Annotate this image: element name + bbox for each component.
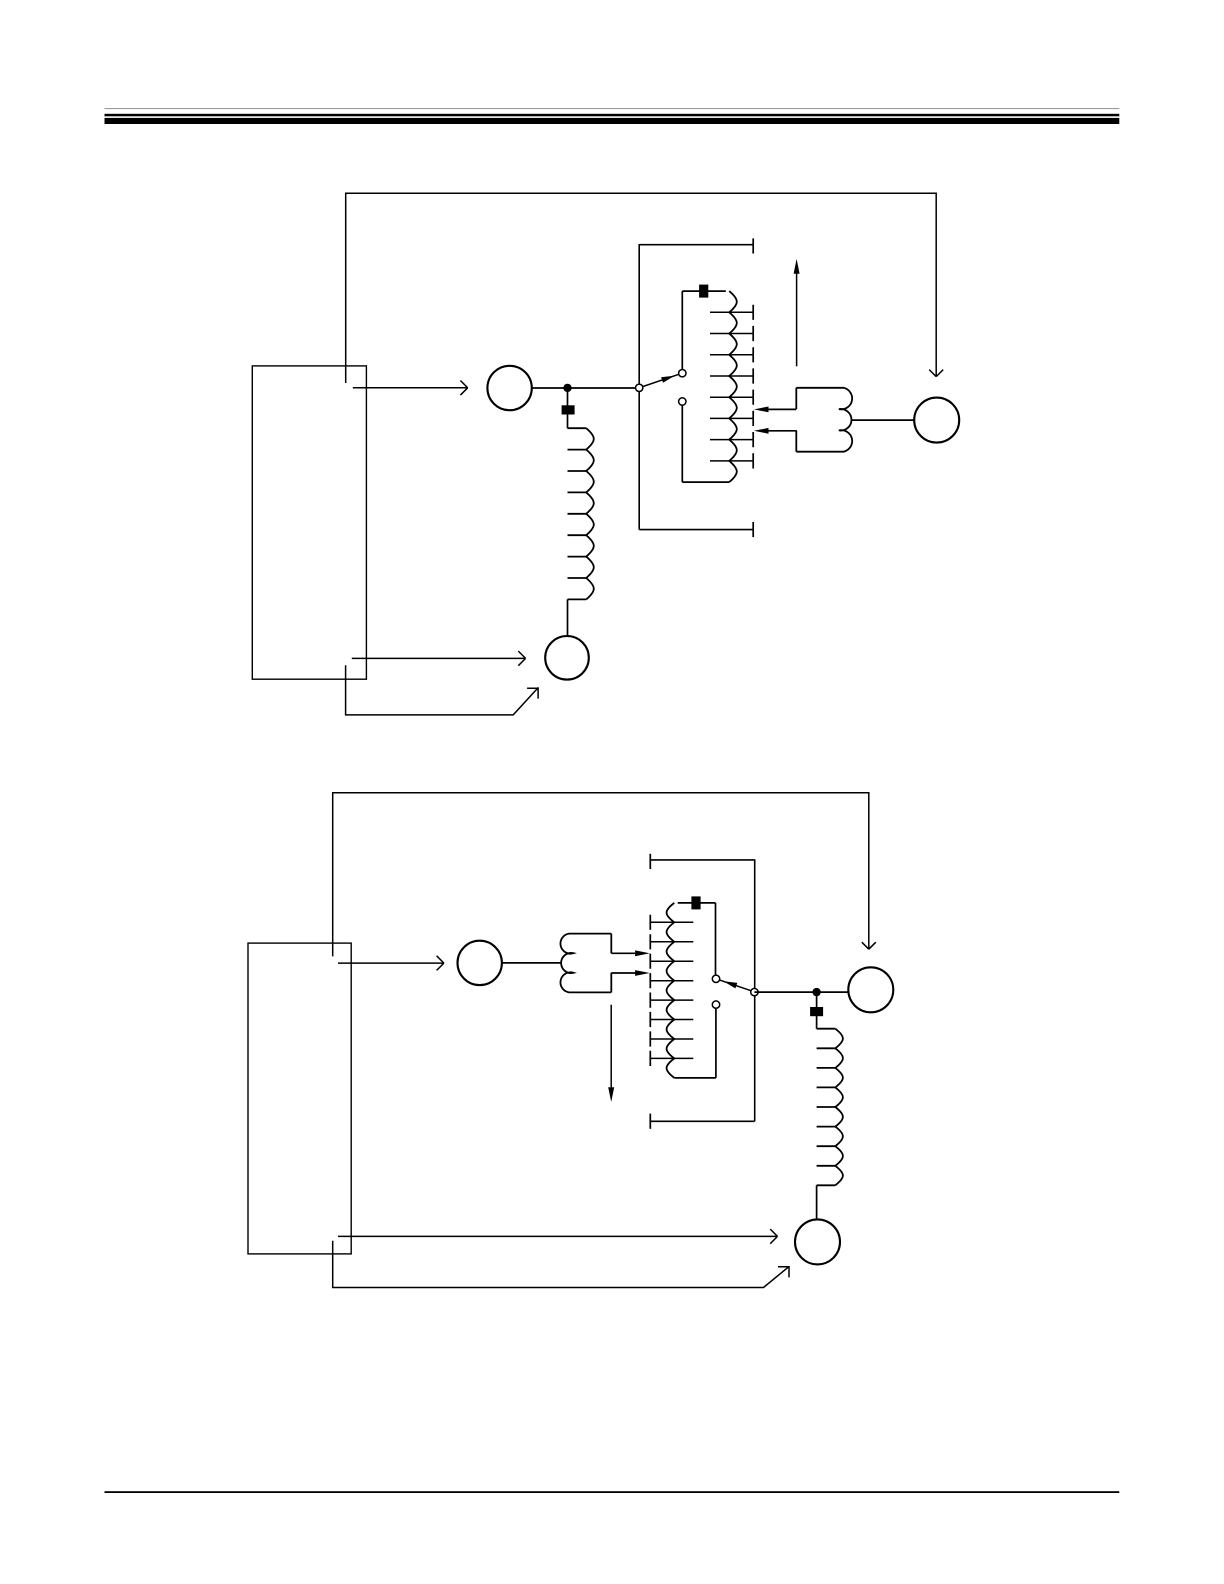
wire tapped winding top lead (diagram 1) [682,290,726,292]
wire changeover lower branch (diagram 2) [715,1008,717,1078]
wire preventive auto tap to terminal S (diagram 1) [852,419,915,421]
wire top rail (diagram 2) [333,792,869,794]
terminal circle H1 (diagram 2) [458,941,502,985]
series winding L1 turn returns (diagram 2) [817,1029,836,1186]
junction dot B (diagram 2) [812,988,820,996]
selector arm arrowhead (diagram 1) [661,376,675,383]
arrow into terminal X1 (diagram 2) [338,1235,777,1237]
terminal circle H1 (diagram 1) [487,366,531,410]
wire tapped winding bottom lead (diagram 2) [674,1077,716,1079]
track end tick top (diagram 2) [649,854,651,869]
tapped winding L2 (diagram 1) [729,291,737,482]
selector fixed contact lower (diagram 2) [712,1001,719,1008]
bridging wire upper with arrowhead (diagram 2) [611,952,636,954]
series winding L1 turn returns (diagram 1) [568,428,587,599]
selector arm (diagram 2) [719,980,752,991]
wire changeover upper branch (diagram 1) [681,291,683,370]
arrow into terminal H1 (diagram 2) [338,962,444,964]
terminal circle X1 (diagram 1) [545,636,589,680]
wire junction A down to series winding (diagram 1) [567,388,569,428]
selector fixed contact upper (diagram 2) [712,975,719,982]
wire right rail drop (diagram 2) [868,792,870,949]
marker square on tapped winding lead (diagram 1) [699,285,708,298]
series winding L1 (diagram 2) [835,1029,843,1186]
wire right rail drop (diagram 1) [935,193,937,377]
LTC adjustment arrow (diagram 2) [333,1241,789,1288]
wire changeover lower branch (diagram 1) [681,405,683,482]
wire pivot to terminal S (diagram 2) [754,991,848,993]
marker square on tapped winding lead (diagram 2) [691,896,700,909]
track end tick top (diagram 1) [752,238,754,253]
wire series winding to terminal X1 (diagram 1) [567,599,569,636]
junction dot A (diagram 1) [563,384,571,392]
arrow into terminal H1 (diagram 1) [353,387,468,389]
series winding L1 (diagram 1) [586,428,594,599]
wire top rail (diagram 1) [346,192,937,194]
wire tapped winding top lead (diagram 2) [678,902,716,904]
tapped winding L2 (diagram 2) [667,903,675,1078]
LTC adjustment arrow (diagram 1) [346,665,538,715]
selector fixed contact lower (diagram 1) [679,398,686,405]
wire junction B down to series winding (diagram 2) [816,992,818,1029]
wire left rail drop to box (diagram 2) [332,792,334,956]
page top rule (triple) [105,108,1120,124]
marker square on series winding lead (diagram 1) [562,405,575,414]
arrow into terminal X1 (diagram 1) [352,657,526,659]
terminal circle S (diagram 1) [914,398,959,443]
page bottom rule [105,1491,1120,1493]
selector arm arrowhead (diagram 2) [724,981,738,988]
selector contact track ticks (diagram 1) [752,305,754,469]
preventive autotransformer (diagram 2) [560,934,611,993]
selector range bracket (diagram 2) [650,859,754,1121]
preventive autotransformer (diagram 1) [796,388,852,452]
tap leads (diagram 1) [710,312,753,461]
selector contact track ticks (diagram 2) [649,915,651,1066]
raise direction arrow (diagram 1) [796,273,798,367]
selector range bracket (diagram 1) [639,244,753,530]
bridging wire lower with arrowhead (diagram 2) [611,972,636,974]
wire series winding to terminal X1 (diagram 2) [816,1185,818,1220]
track end tick bottom (diagram 1) [752,522,754,537]
track end tick bottom (diagram 2) [649,1114,651,1129]
arrowhead down into terminal S (diagram 2) [862,942,876,949]
arrowhead down into terminal S (diagram 1) [929,370,943,377]
bridging wire lower with arrowhead (diagram 1) [768,430,796,432]
selector pivot contact (diagram 1) [636,384,643,391]
marker square on series winding lead (diagram 2) [810,1007,823,1016]
selector pivot contact (diagram 2) [751,988,758,995]
wire H1 to preventive auto tap (diagram 2) [502,962,562,964]
box (transformer) diagram 2 [248,943,351,1254]
wire left rail drop to box (diagram 1) [345,193,347,384]
wire changeover upper branch (diagram 2) [715,903,717,975]
wire tapped winding bottom lead (diagram 1) [682,481,729,483]
selector fixed contact upper (diagram 1) [679,370,686,377]
lower direction arrow (diagram 2) [610,1005,612,1088]
bridging wire upper with arrowhead (diagram 1) [768,408,796,410]
terminal circle S (diagram 2) [848,967,893,1012]
wire H1 to selector pivot (diagram 1) [532,387,639,389]
box (transformer) diagram 1 [252,366,366,679]
selector arm (diagram 1) [642,374,680,387]
tap leads (diagram 2) [650,922,693,1058]
terminal circle X1 (diagram 2) [795,1219,840,1264]
